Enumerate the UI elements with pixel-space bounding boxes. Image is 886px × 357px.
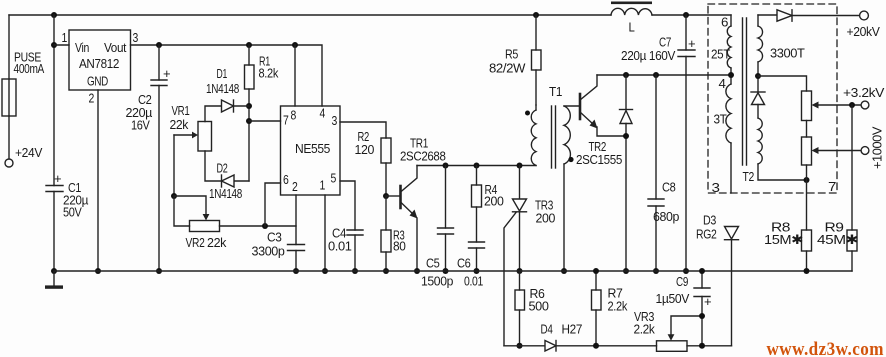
svg-text:2SC1555: 2SC1555 — [576, 152, 622, 167]
svg-text:NE555: NE555 — [295, 141, 330, 156]
svg-text:C9: C9 — [676, 274, 688, 289]
svg-text:680p: 680p — [653, 209, 679, 224]
resistor R7 2.2k — [592, 271, 602, 346]
svg-text:VR1: VR1 — [172, 103, 190, 118]
transformer T2 winding 3T — [726, 84, 731, 193]
potentiometer VR3 2.2k — [657, 316, 732, 351]
diode D2 1N4148 — [205, 151, 249, 187]
svg-text:+: + — [688, 36, 695, 51]
svg-text:C5: C5 — [426, 256, 440, 271]
svg-text:8.2k: 8.2k — [259, 66, 279, 81]
ground — [45, 271, 63, 289]
svg-text:2: 2 — [292, 179, 298, 194]
svg-text:+24V: +24V — [15, 145, 43, 160]
transformer T2 shield box — [708, 4, 837, 193]
resistor R8 15M — [802, 230, 812, 271]
svg-text:1N4148: 1N4148 — [206, 81, 239, 96]
svg-text:R5: R5 — [505, 47, 518, 62]
resistor R3 — [381, 196, 391, 271]
svg-text:7: 7 — [283, 113, 289, 128]
capacitor C6 — [469, 242, 485, 271]
wire AN7812 pin3 Vout rail — [131, 45, 323, 106]
node collector-C8 junction — [653, 72, 659, 78]
diode D5 damper — [620, 75, 633, 271]
node collector-R4 junction — [474, 163, 480, 169]
svg-text:AN7812: AN7812 — [79, 56, 119, 71]
node C4-bus junction — [352, 268, 358, 274]
svg-text:T2: T2 — [743, 169, 755, 184]
svg-text:+: + — [163, 66, 170, 81]
resistor R6 500 — [515, 271, 525, 346]
svg-text:1: 1 — [62, 30, 68, 45]
svg-text:400mA: 400mA — [14, 61, 45, 76]
wire ground bus — [54, 270, 852, 272]
svg-text:RG2: RG2 — [696, 227, 717, 242]
svg-text:7: 7 — [828, 179, 836, 194]
svg-text:3300T: 3300T — [770, 46, 805, 61]
terminal +20kV — [860, 11, 869, 20]
svg-text:6: 6 — [283, 172, 289, 187]
node 25T-3T pin4 junction — [728, 72, 734, 78]
resistor R5 82/2W — [532, 15, 542, 105]
capacitor C9 1u50V — [694, 271, 711, 346]
diode D1 1N4148 — [205, 100, 249, 122]
svg-text:4: 4 — [719, 76, 726, 91]
terminal +24V — [5, 159, 13, 167]
node rail-input junction — [51, 12, 57, 18]
node emitter-bus junction — [414, 268, 420, 274]
node R1-D1 junction — [246, 103, 252, 109]
wire NE555 pin7 — [249, 120, 281, 122]
svg-text:200: 200 — [536, 211, 556, 226]
node D5-bus junction — [623, 268, 629, 274]
svg-text:2.2k: 2.2k — [608, 299, 628, 314]
timer U NE555 — [281, 106, 341, 195]
diode D6 internal — [751, 92, 765, 118]
wire C2 top — [158, 45, 160, 80]
svg-text:3: 3 — [332, 113, 338, 128]
svg-text:0.01: 0.01 — [328, 239, 352, 254]
svg-text:15M✱: 15M✱ — [764, 232, 804, 247]
resistor R1 — [245, 45, 255, 181]
node C9-wiper junction — [699, 313, 705, 319]
svg-text:www.dz3w.com: www.dz3w.com — [767, 339, 885, 357]
node C3-bus junction — [293, 268, 299, 274]
svg-text:500: 500 — [529, 299, 549, 314]
svg-text:2.2k: 2.2k — [634, 322, 656, 337]
transformer T1 core — [552, 106, 556, 168]
svg-text:D2: D2 — [217, 161, 228, 176]
inductor L — [611, 2, 652, 16]
wire VR1 wiper down — [173, 135, 175, 196]
node R7-bus junction — [593, 268, 599, 274]
wire trigger wire left — [504, 345, 545, 347]
wire TR1 emitter to bus — [416, 218, 418, 271]
wire top rail right segment — [652, 14, 731, 16]
capacitor C8 680p — [648, 75, 664, 271]
wire C3 to bus — [295, 251, 297, 272]
wire C1 to bus — [53, 192, 55, 272]
svg-text:5: 5 — [331, 171, 337, 186]
transistor TR2 2SC1555 — [580, 75, 626, 136]
terminal +3.2kV — [861, 101, 869, 109]
node C2-bus junction — [156, 268, 162, 274]
svg-text:8: 8 — [291, 108, 297, 123]
svg-text:22k: 22k — [170, 117, 189, 132]
wire AN7812 pin2 GND — [97, 90, 99, 271]
svg-text:120: 120 — [355, 142, 375, 157]
svg-text:1: 1 — [320, 178, 326, 193]
wire tap to divider — [758, 76, 807, 91]
svg-text:+3.2kV: +3.2kV — [843, 85, 885, 100]
svg-text:3300p: 3300p — [252, 244, 285, 259]
svg-text:D1: D1 — [217, 66, 228, 81]
capacitor C5 — [438, 166, 454, 272]
node C1-bus junction — [51, 268, 57, 274]
wire NE555 pin2 — [295, 195, 297, 245]
node C8-bus junction — [653, 268, 659, 274]
wire input branch vertical — [53, 15, 55, 186]
svg-text:82/2W: 82/2W — [489, 61, 526, 76]
svg-text:T1: T1 — [549, 84, 562, 99]
transformer T1 primary — [525, 105, 536, 166]
svg-text:GND: GND — [87, 74, 108, 89]
wire +24V input column — [8, 15, 10, 79]
resistor R4 — [472, 166, 482, 243]
svg-text:0.01: 0.01 — [464, 274, 483, 289]
wire NE555 pin6 — [265, 183, 281, 226]
potentiometer VR2 22k — [190, 214, 220, 232]
svg-text:D3: D3 — [703, 213, 716, 228]
resistor R9 45M — [847, 230, 857, 271]
capacitor C1 — [46, 171, 63, 192]
svg-text:220µ 160V: 220µ 160V — [621, 48, 676, 63]
node pin1-bus junction — [322, 268, 328, 274]
potentiometer VR1 22k — [174, 122, 212, 152]
wire NE555 pin1 to bus — [324, 195, 326, 271]
svg-text:1500p: 1500p — [421, 274, 453, 289]
node D5-emitter junction — [623, 133, 629, 139]
svg-text:C6: C6 — [457, 256, 471, 271]
svg-text:200: 200 — [484, 194, 504, 209]
wire NE555 pin8 — [294, 45, 296, 106]
svg-text:16V: 16V — [131, 118, 150, 133]
svg-text:1µ50V: 1µ50V — [656, 291, 690, 306]
svg-text:C8: C8 — [662, 180, 676, 195]
svg-text:6: 6 — [721, 15, 728, 30]
node pin2-bus junction — [95, 268, 101, 274]
transformer T2 winding 3300T lower — [758, 118, 807, 180]
wire C4 to bus — [354, 235, 356, 271]
transistor TR1 2SC2688 — [386, 166, 418, 219]
svg-text:Vin: Vin — [75, 40, 89, 55]
transformer T2 core — [743, 18, 747, 165]
node C9-bus junction — [699, 268, 705, 274]
node collector-D5 junction — [623, 72, 629, 78]
node Vout-pin8 junction — [292, 42, 298, 48]
node R3-bus junction — [383, 268, 389, 274]
svg-text:3T: 3T — [714, 112, 727, 127]
node tap-R9 junction — [849, 102, 855, 108]
node Vout-R1 junction — [246, 42, 252, 48]
wire NE555 pin3 to R2 — [340, 122, 386, 138]
transformer T2 winding 25T — [727, 15, 731, 84]
node 3300T tap junction — [755, 73, 761, 79]
capacitor C4 — [347, 230, 363, 235]
node T1sec-bus junction — [561, 268, 567, 274]
thyristor TR3 200 — [504, 166, 527, 346]
wire +1000V tap — [812, 147, 862, 154]
svg-text:80: 80 — [393, 239, 406, 254]
wire NE555 pin5 — [340, 181, 355, 230]
node TR3-bus junction — [517, 268, 523, 274]
regulator U AN7812 — [69, 30, 131, 90]
wire fuse to terminal — [8, 116, 10, 159]
svg-text:+20kV: +20kV — [847, 24, 881, 39]
node divider bottom junction — [804, 177, 810, 183]
node pin1 junction — [51, 42, 57, 48]
node C6-bus junction — [474, 268, 480, 274]
wire top rail left segment — [9, 14, 611, 16]
transformer T1 secondary — [564, 106, 574, 164]
svg-text:3: 3 — [712, 180, 720, 195]
svg-text:C3: C3 — [267, 230, 282, 245]
capacitor C2 — [151, 66, 170, 86]
diode D4 H27 — [545, 341, 657, 352]
svg-text:2SC2688: 2SC2688 — [400, 149, 446, 164]
node Vout-C2 junction — [156, 42, 162, 48]
svg-text:3: 3 — [133, 30, 139, 45]
node base junction — [383, 193, 389, 199]
node collector-TR3 junction — [517, 163, 523, 169]
node R6-trigger junction — [517, 343, 523, 349]
wire T1 secondary to TR2 base — [564, 105, 579, 107]
wire wiper to VR2 left — [174, 196, 190, 226]
node C9-trigger junction — [699, 343, 705, 349]
svg-text:+: + — [54, 171, 61, 186]
svg-text:L: L — [629, 20, 635, 35]
svg-text:45M✱: 45M✱ — [817, 232, 859, 247]
node R7-trigger junction — [593, 343, 599, 349]
wire divider to R8 — [806, 180, 808, 230]
fuse PUSE 400mA — [2, 79, 16, 116]
svg-text:+: + — [704, 294, 711, 309]
node rail-R5 junction — [533, 12, 539, 18]
node rail-C7 junction — [683, 12, 689, 18]
resistor divider upper — [802, 91, 812, 137]
terminal +1000V — [861, 147, 869, 155]
wire VR2 right to pin2 node — [220, 225, 297, 227]
node C5-bus junction — [443, 268, 449, 274]
svg-text:Vout: Vout — [104, 40, 127, 55]
transformer T2 winding 3300T upper — [758, 15, 763, 92]
node wiper junction — [171, 193, 177, 199]
node collector-C5 junction — [443, 163, 449, 169]
wire R9 column — [851, 105, 853, 230]
svg-text:D4: D4 — [541, 322, 553, 337]
svg-text:1N4148: 1N4148 — [209, 186, 242, 201]
svg-text:22k: 22k — [207, 235, 227, 250]
wire TR2 collector line — [597, 74, 731, 76]
wire collector line — [417, 165, 536, 167]
wire T1 secondary bottom to bus — [563, 164, 565, 271]
wire AN7812 pin1 — [54, 44, 69, 46]
wire +3.2kV tap — [812, 102, 862, 109]
svg-text:+1000V: +1000V — [870, 126, 885, 169]
resistor divider lower — [802, 137, 812, 180]
svg-text:50V: 50V — [63, 205, 82, 220]
node C7-bus junction — [683, 268, 689, 274]
diode D7 output — [758, 10, 860, 21]
svg-text:25T: 25T — [711, 47, 730, 62]
wire wiper to VR2 arrow — [174, 196, 206, 215]
svg-text:4: 4 — [320, 106, 326, 121]
svg-text:H27: H27 — [562, 322, 583, 337]
wire C2 to bus — [158, 86, 160, 272]
node R1-pin7 junction — [246, 118, 252, 124]
resistor R2 — [381, 138, 391, 196]
svg-text:2: 2 — [89, 91, 95, 106]
capacitor C3 — [288, 245, 305, 251]
node R8-bus junction — [804, 268, 810, 274]
svg-text:VR2: VR2 — [186, 235, 205, 250]
capacitor C7 220u160V — [678, 15, 695, 271]
diode D3 RG2 — [725, 227, 739, 346]
node pin6-pin2 junction — [262, 223, 268, 229]
